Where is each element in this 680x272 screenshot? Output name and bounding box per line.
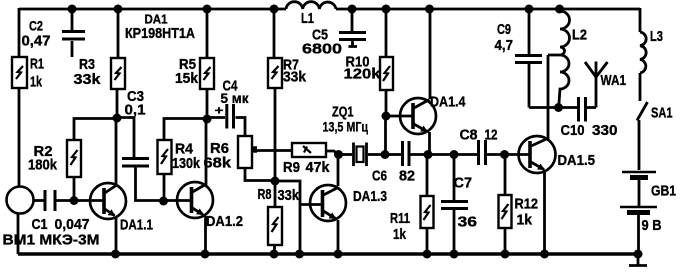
wire: R1 branch from rail (18, 8, 21, 57)
node: DA1.5 emitter ground junction (540, 250, 549, 259)
label C9 4,7 (495, 21, 514, 54)
wire: C7 to ground (453, 210, 456, 254)
svg-text:L2: L2 (572, 27, 587, 44)
svg-text:R11: R11 (390, 210, 410, 227)
label C4 5 мк + (215, 78, 250, 118)
svg-text:33k: 33k (283, 69, 307, 86)
wire: node A elbow to C3 (117, 118, 134, 158)
resistor R9 (horizontal) (292, 143, 326, 157)
wire: R10 to node F (385, 90, 388, 116)
capacitor C4 (227, 104, 234, 129)
svg-text:1k: 1k (393, 226, 407, 243)
switch SA1 (637, 102, 648, 121)
label C2 0,47 (22, 18, 51, 50)
wire: C9 branch from rail (528, 8, 531, 54)
wire: R11 to ground (426, 228, 429, 254)
label R1 1k (30, 56, 44, 91)
transistor DA1.3 (310, 185, 346, 221)
wire: R6 wiper arm to R9 (252, 149, 292, 152)
wire: microphone to ground rail (17, 213, 20, 254)
wire: C3 to DA1.2 base node (136, 168, 164, 201)
svg-text:DA1: DA1 (145, 12, 168, 27)
svg-text:68k: 68k (204, 155, 232, 172)
node C: R7/R8/R6 junction (271, 177, 280, 186)
label R6 68k (204, 140, 232, 172)
label R5 15k (175, 56, 199, 87)
svg-text:330: 330 (592, 122, 618, 139)
label R7 33k (283, 57, 307, 86)
inductor L3 (640, 32, 646, 73)
wire: L3 to switch (639, 73, 642, 101)
wire: R7 to node C (274, 88, 277, 181)
label ZQ1 13,5 МГц (323, 104, 369, 135)
node: C7 ground junction (450, 250, 459, 259)
label R11 1k (390, 210, 410, 243)
wire: R6 bottom to node C (245, 168, 271, 181)
wire: C1 to DA1.1 base (56, 199, 104, 202)
svg-text:C9: C9 (497, 21, 511, 38)
node E: ZQ1/C6/R10 line junction (381, 150, 390, 159)
antenna WA1 (585, 62, 608, 108)
wire: node B to DA1.2 collector (205, 119, 208, 185)
capacitor C6 (403, 141, 410, 166)
label C3 0,1 (125, 88, 146, 119)
resistor R2 (67, 140, 81, 177)
wire: DA1.5 emitter to ground (543, 170, 546, 254)
svg-text:180k: 180k (28, 157, 58, 174)
svg-text:0,1: 0,1 (125, 102, 146, 119)
resistor R5 (200, 58, 214, 89)
wire: microphone to C1 (33, 199, 44, 202)
wire: C9 to node J (529, 106, 558, 109)
resistor R12 (499, 195, 512, 228)
wire: rail right corner to L3 (639, 8, 642, 32)
label R4 130k (172, 141, 201, 173)
wire: node E to C6 (385, 153, 401, 156)
label C10 330 (561, 122, 618, 139)
node: R11 ground junction (423, 250, 432, 259)
wire: DA1.3 emitter to ground (337, 220, 340, 254)
battery GB1 (620, 172, 657, 213)
wire: node B to C4 (207, 116, 225, 119)
wire: DA1.4 collector to rail (429, 8, 432, 99)
node: DA1.1 emitter ground junction (111, 250, 120, 259)
wire: R7 branch from rail (273, 8, 276, 58)
node: R3 rail junction (114, 5, 123, 14)
wire: node G to node H (428, 153, 454, 156)
node: DA1.2 emitter ground junction (201, 250, 210, 259)
svg-text:1k: 1k (517, 212, 533, 229)
svg-text:R8: R8 (258, 186, 272, 203)
wire: node F to node E (384, 116, 387, 155)
node: DA1.3 emitter ground junction (334, 250, 343, 259)
label R10 120k (344, 53, 382, 82)
wire: node I to R12 (504, 155, 507, 196)
svg-text:6800: 6800 (302, 41, 342, 58)
inductor L2 (559, 9, 570, 107)
svg-text:5 мк: 5 мк (221, 90, 250, 106)
node I: C8/R12/DA1.5 base junction (500, 150, 509, 159)
resistor R6 (trimmer) (238, 136, 252, 168)
capacitor C3 (122, 159, 149, 167)
svg-text:130k: 130k (172, 155, 201, 172)
wire: R6 wiper stub (252, 146, 257, 153)
ground symbol (629, 254, 647, 266)
svg-text:13,5 МГц: 13,5 МГц (323, 119, 369, 135)
wire: R3 to node A (116, 89, 119, 118)
svg-text:120k: 120k (344, 66, 382, 83)
node: R12 ground junction (501, 250, 510, 259)
wire: top supply rail (19, 8, 640, 11)
svg-text:SA1: SA1 (651, 105, 673, 122)
wire: R9 to node D (326, 151, 338, 155)
svg-text:9 В: 9 В (642, 217, 662, 234)
node: R10 rail junction (382, 5, 391, 14)
crystal ZQ1 (354, 143, 367, 167)
wire: node H to C8 (454, 153, 477, 156)
svg-text:C8: C8 (460, 127, 478, 144)
wire: node C to R8 (274, 181, 277, 207)
capacitor C1 (45, 190, 55, 211)
wire: C8 to node I (487, 153, 505, 156)
wire: bottom ground rail (18, 252, 638, 256)
svg-text:1k: 1k (30, 74, 42, 91)
svg-text:КР198НТ1А: КР198НТ1А (125, 26, 195, 42)
svg-text:GB1: GB1 (651, 183, 676, 200)
capacitor C8 (479, 140, 486, 165)
node: DA1.4 collector rail junction (425, 5, 434, 14)
svg-text:33k: 33k (74, 71, 102, 88)
label R9 47k (283, 159, 330, 176)
wire: R4 top elbow (164, 119, 207, 141)
transistor DA1.2 (177, 182, 213, 218)
capacitor C5 (339, 8, 366, 47)
wire: R12 to ground (504, 228, 507, 254)
svg-text:12: 12 (485, 127, 498, 144)
wire: node G to R11 (426, 155, 429, 197)
node: R5 rail junction (203, 5, 212, 14)
svg-text:L1: L1 (301, 10, 314, 27)
svg-text:82: 82 (399, 168, 415, 185)
label R12 1k (515, 196, 539, 229)
wire: node D to ZQ1 (339, 153, 353, 156)
svg-text:C6: C6 (372, 168, 387, 185)
label C7 36 (454, 175, 478, 231)
svg-text:DA1.2: DA1.2 (206, 213, 243, 230)
label DA1 КР198НТ1А (125, 12, 195, 42)
svg-text:R1: R1 (30, 56, 44, 73)
transistor DA1.5 (519, 136, 556, 173)
node: R7 rail junction (270, 5, 279, 14)
wire: node A to DA1.1 collector (115, 118, 118, 184)
svg-text:C1: C1 (32, 216, 48, 233)
label GB1 9 В (642, 183, 677, 235)
wire: R10 branch from rail (385, 8, 388, 57)
svg-text:DA1.4: DA1.4 (430, 94, 466, 111)
wire: node J to C10 (558, 106, 577, 109)
wire: base node to DA1.2 base (163, 199, 192, 202)
node: C9 rail junction (525, 5, 534, 14)
wire: R5 to node B (206, 89, 209, 119)
wire: R4 bottom to base node (163, 174, 166, 201)
svg-text:C7: C7 (454, 175, 473, 192)
wire: R1 to microphone (18, 88, 21, 187)
resistor R11 (421, 196, 434, 228)
wire: R5 branch from rail (206, 8, 209, 58)
node: R8 ground junction (270, 250, 279, 259)
node: battery ground junction (634, 250, 643, 259)
wire: DA1.1 emitter to ground (115, 217, 118, 254)
svg-text:C10: C10 (561, 122, 585, 139)
svg-text:C2: C2 (29, 18, 43, 34)
wire: C10 to antenna (587, 106, 596, 109)
label R3 33k (74, 56, 102, 88)
svg-text:DA1.5: DA1.5 (558, 152, 596, 169)
label C5 6800 (302, 27, 342, 58)
svg-text:4,7: 4,7 (495, 37, 514, 54)
svg-text:0,047: 0,047 (55, 216, 90, 233)
wire: C4 to R6 (236, 118, 246, 137)
svg-text:+: + (215, 104, 224, 118)
wire: switch to battery (638, 120, 641, 170)
wire: R8 to ground (273, 245, 276, 254)
label C8 12 (460, 127, 498, 144)
resistor R3 (111, 58, 125, 89)
node: L2 rail junction (555, 5, 564, 14)
wire: C6 to node G (411, 153, 429, 156)
microphone BM1 (7, 187, 34, 214)
wire: node I to DA1.5 base (505, 153, 531, 156)
resistor R1 (12, 57, 27, 88)
node: R2/base wire junction (70, 196, 79, 205)
capacitor C10 (579, 97, 586, 122)
wire: node A to R2 (74, 119, 117, 141)
wire: node F to DA1.4 base (386, 115, 413, 118)
wire: DA1.2 emitter to ground (204, 216, 207, 254)
node J: C9/L2/C10 junction (554, 103, 563, 112)
wire: DA1.4 emitter to node G (428, 132, 431, 155)
capacitor C9 (515, 56, 542, 108)
svg-text:36: 36 (458, 214, 478, 231)
svg-text:R9: R9 (283, 159, 300, 176)
resistor R4 (158, 140, 172, 174)
node A: R3/R2/C3/DA1.1 collector junction (113, 114, 122, 123)
wire: node D to DA1.3 collector (337, 155, 340, 187)
svg-text:47k: 47k (306, 159, 331, 176)
node B: R5/R4/C4/DA1.2 collector junction (203, 115, 212, 124)
resistor R10 (380, 57, 393, 90)
svg-text:0,47: 0,47 (22, 33, 51, 50)
transistor DA1.1 (90, 183, 126, 219)
node: C5 rail junction (348, 5, 357, 14)
svg-text:DA1.3: DA1.3 (353, 188, 387, 205)
svg-text:33k: 33k (278, 187, 300, 204)
wire: node H to C7 (453, 155, 456, 201)
wire: battery to ground rail (637, 215, 640, 254)
resistor R8 (268, 207, 282, 245)
transistor DA1.4 (400, 98, 436, 134)
wire: R2 to base wire (73, 177, 76, 200)
node: R4/C3/DA1.2 base junction (159, 197, 168, 206)
svg-text:DA1.1: DA1.1 (120, 217, 153, 234)
resistor R7 (268, 58, 282, 88)
wire: R3 branch from rail (117, 8, 120, 58)
capacitor C2 (62, 8, 85, 57)
svg-text:15k: 15k (175, 70, 199, 87)
label R2 180k (28, 143, 58, 174)
capacitor C7 (441, 202, 468, 209)
svg-text:WA1: WA1 (601, 72, 627, 89)
node F: R10/DA1.4 base junction (382, 112, 391, 121)
svg-text:R12: R12 (515, 196, 539, 213)
inductor L1 (286, 2, 336, 9)
wire: node C elbow to ground and DA1.3 base tee (275, 181, 323, 254)
node: C2 rail junction (68, 5, 77, 14)
node: elbow ground junction (295, 250, 304, 259)
label R8 33k (258, 186, 300, 204)
wire: DA1.5 collector to L2 tap (548, 55, 560, 139)
node G: C6/DA1.4 emitter/R11 junction (424, 150, 433, 159)
node H: C7 junction (450, 150, 459, 159)
node D: R9/ZQ1/DA1.3 collector junction (334, 150, 343, 159)
svg-text:L3: L3 (650, 28, 663, 45)
label C1 0,047 (32, 216, 90, 233)
label C6 82 (372, 168, 415, 185)
wire: ZQ1 to node E (368, 153, 385, 156)
